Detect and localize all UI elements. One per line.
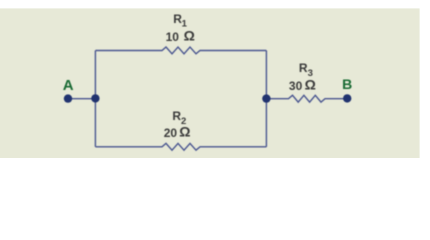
svg-text:A: A <box>63 77 74 94</box>
svg-text:Ω: Ω <box>184 28 195 44</box>
svg-text:B: B <box>342 76 352 92</box>
svg-text:Ω: Ω <box>305 77 316 93</box>
svg-text:20: 20 <box>164 126 178 140</box>
svg-text:R: R <box>299 61 308 75</box>
svg-text:10: 10 <box>166 30 180 44</box>
svg-text:Ω: Ω <box>179 124 190 140</box>
svg-text:30: 30 <box>289 79 303 93</box>
